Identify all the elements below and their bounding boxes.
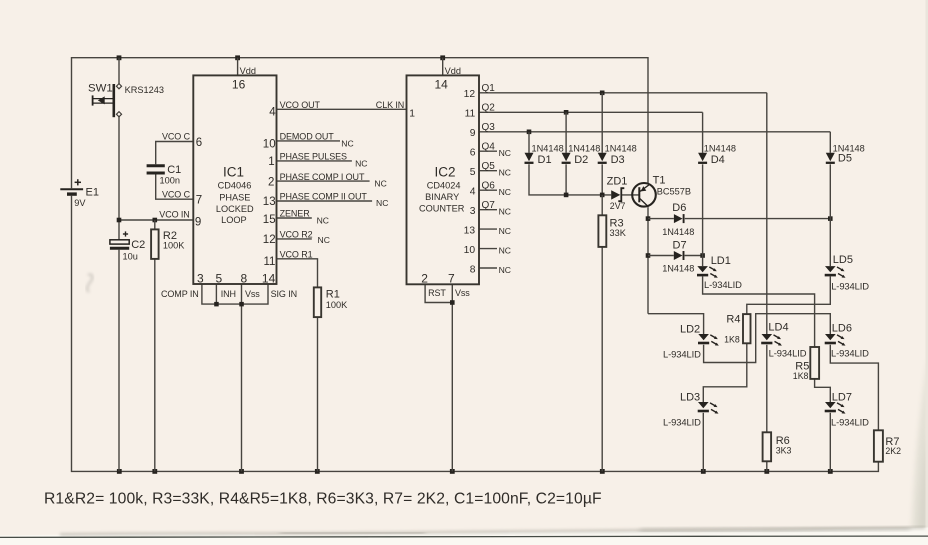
node ground LD7	[828, 469, 833, 474]
svg-text:NC: NC	[499, 168, 511, 178]
wire D6 row	[648, 218, 830, 220]
svg-text:DEMOD OUT: DEMOD OUT	[280, 132, 335, 142]
wire IC2 Q7 pin 3	[479, 209, 497, 211]
svg-text:LD5: LD5	[833, 254, 853, 266]
node D1 tap on Q3	[527, 130, 532, 135]
wire IC2 Q4 pin 6	[479, 150, 497, 152]
svg-text:100n: 100n	[160, 176, 180, 186]
svg-text:IC2: IC2	[434, 164, 455, 179]
svg-text:1N4148: 1N4148	[662, 227, 694, 237]
wire IC1 Vdd pin 16	[237, 58, 239, 76]
svg-text:Q5: Q5	[482, 161, 496, 172]
wire IC1 pin 6 to C1	[156, 142, 194, 165]
svg-text:SIG IN: SIG IN	[271, 289, 297, 299]
svg-text:1: 1	[409, 109, 415, 120]
wire R1 to ground	[317, 317, 319, 471]
svg-text:KRS1243: KRS1243	[125, 85, 164, 95]
op-amp U2 IC2 CD4024 binary counter box	[407, 75, 480, 284]
LED LD5 L-934LID	[825, 254, 870, 291]
node ground IC2 Vss	[450, 469, 455, 474]
svg-text:NC: NC	[376, 198, 388, 208]
svg-text:VCO R1: VCO R1	[280, 250, 313, 260]
svg-text:NC: NC	[317, 216, 329, 226]
svg-text:T1: T1	[653, 175, 666, 187]
node IC1 pin8 bus	[239, 302, 244, 307]
node ground R2	[152, 469, 157, 474]
svg-text:E1: E1	[86, 187, 99, 199]
wire IC1 pin 15 ZENER	[277, 217, 312, 219]
svg-text:5: 5	[216, 272, 223, 286]
svg-text:11: 11	[264, 256, 276, 268]
svg-text:L-934LID: L-934LID	[769, 348, 807, 359]
resistor R4 1K8	[724, 313, 750, 344]
svg-text:9V: 9V	[74, 198, 86, 208]
wire R3 branch	[601, 195, 603, 472]
node D2 on bus	[564, 193, 569, 198]
svg-text:D4: D4	[711, 154, 725, 166]
wire D2 branch	[565, 112, 567, 195]
LED LD4 L-934LID	[761, 321, 806, 358]
svg-text:LD3: LD3	[680, 391, 700, 403]
node IC2 Vdd junction	[440, 55, 445, 60]
IC1 pin labels	[159, 66, 388, 299]
svg-text:L-934LID: L-934LID	[663, 349, 701, 360]
svg-text:Q6: Q6	[482, 181, 496, 192]
resistor R3 33K	[598, 215, 626, 247]
wire SW1 to VCO IN node	[118, 58, 120, 220]
wire IC1 pin 13 PHASE COMP II OUT	[277, 200, 373, 202]
svg-text:D2: D2	[574, 154, 588, 166]
svg-text:1N4148: 1N4148	[662, 264, 694, 274]
wire ZD1 to T1 base	[622, 194, 639, 196]
svg-text:L-934LID: L-934LID	[831, 417, 869, 428]
svg-text:2V7: 2V7	[610, 201, 626, 211]
wire R5 to LD7	[815, 379, 831, 402]
wire R4 to LD3	[703, 343, 747, 402]
wire IC2 Q5 pin 5	[479, 170, 497, 172]
svg-text:Q3: Q3	[482, 122, 496, 133]
wire IC2 pin 7 Vss to ground	[451, 284, 453, 471]
svg-text:14: 14	[262, 272, 276, 286]
zener diode ZD1 2V7	[607, 175, 628, 211]
wire IC2 pin 10	[479, 248, 497, 250]
svg-text:D5: D5	[838, 153, 852, 165]
svg-text:13: 13	[464, 225, 476, 236]
node VCO IN at R2	[153, 218, 158, 223]
svg-text:100K: 100K	[163, 240, 185, 250]
svg-text:2: 2	[421, 272, 428, 286]
svg-text:12: 12	[464, 89, 476, 100]
svg-text:D1: D1	[538, 154, 552, 166]
svg-text:L-934LID: L-934LID	[663, 417, 701, 428]
node ground R6	[764, 469, 769, 474]
diode D7 1N4148	[662, 239, 694, 273]
svg-text:INH: INH	[221, 289, 236, 299]
resistor R5 1K8	[793, 347, 819, 381]
svg-text:13: 13	[263, 196, 276, 208]
svg-text:4: 4	[269, 106, 276, 118]
svg-text:COMP IN: COMP IN	[161, 289, 199, 299]
svg-text:8: 8	[241, 272, 248, 286]
LED LD2 L-934LID	[663, 323, 719, 359]
svg-text:SW1: SW1	[88, 83, 113, 95]
wire IC2 pin 13	[479, 228, 497, 230]
svg-text:2: 2	[268, 176, 274, 188]
svg-text:Q2: Q2	[482, 103, 496, 114]
svg-text:1N4148: 1N4148	[532, 143, 564, 153]
resistor R6 3K3	[763, 432, 792, 461]
svg-text:10: 10	[464, 245, 476, 256]
svg-text:9: 9	[470, 128, 476, 139]
wire R2 branch	[154, 220, 156, 471]
caption component values	[44, 491, 602, 508]
svg-text:3K3: 3K3	[776, 446, 792, 456]
svg-text:VCO IN: VCO IN	[159, 210, 189, 220]
wire LD6 to R7	[830, 345, 878, 431]
svg-text:BINARY: BINARY	[425, 192, 459, 202]
svg-text:Vdd: Vdd	[445, 66, 461, 76]
svg-text:NC: NC	[499, 207, 511, 217]
svg-text:L-934LID: L-934LID	[831, 281, 869, 292]
svg-text:VCO R2: VCO R2	[280, 230, 313, 240]
wire T1 collector to LD2	[648, 314, 704, 334]
svg-text:9: 9	[195, 216, 201, 228]
svg-text:15: 15	[263, 214, 276, 226]
wire IC1 pin 5 INH	[215, 284, 217, 304]
node D2 tap on Q2	[564, 110, 569, 115]
LED LD7 L-934LID	[825, 391, 869, 427]
wire IC1 pin 3 COMP IN bracket	[202, 284, 268, 304]
svg-text:D3: D3	[611, 154, 625, 166]
wire IC1 pin 4 VCO OUT to IC2 CLK IN pin 1	[277, 108, 407, 110]
svg-text:7: 7	[196, 195, 202, 207]
svg-text:COUNTER: COUNTER	[419, 203, 465, 213]
svg-text:LD1: LD1	[711, 255, 731, 267]
wire Q3 column through D5 to LD5	[829, 132, 831, 266]
diode D1 1N4148	[525, 143, 564, 166]
wire IC2 pin 8	[479, 267, 497, 269]
svg-text:LD2: LD2	[680, 323, 700, 335]
svg-text:VCO C: VCO C	[162, 131, 191, 141]
svg-text:4: 4	[470, 187, 476, 198]
wire VCO IN to IC1 pin 9	[119, 219, 193, 221]
node ground R1	[315, 469, 320, 474]
svg-text:1K8: 1K8	[793, 371, 809, 381]
wire Q1 column to LD4	[766, 93, 768, 334]
svg-text:CLK IN: CLK IN	[376, 100, 404, 110]
svg-text:LOOP: LOOP	[221, 215, 247, 225]
wire R6 to ground	[766, 461, 768, 471]
svg-text:1K8: 1K8	[724, 334, 740, 344]
svg-text:LD4: LD4	[768, 321, 788, 333]
svg-text:CD4024: CD4024	[427, 181, 461, 191]
wire C1 to IC1 pin 7	[156, 174, 194, 199]
svg-text:16: 16	[232, 77, 246, 91]
node T1 to D6	[646, 216, 651, 221]
svg-text:8: 8	[470, 264, 476, 275]
wire IC1 pin 10 DEMOD OUT	[277, 140, 341, 142]
svg-text:ZD1: ZD1	[607, 175, 628, 187]
svg-text:PHASE COMP I OUT: PHASE COMP I OUT	[280, 172, 365, 182]
wire LD2 to LD6	[704, 314, 831, 363]
wire D7 row	[648, 255, 703, 257]
IC2 pin labels	[376, 66, 511, 298]
battery E1 9V	[60, 179, 99, 208]
node IC1 pin5 bus	[214, 302, 219, 307]
capacitor C2 10u electrolytic	[110, 231, 145, 261]
svg-text:33K: 33K	[610, 228, 627, 238]
svg-text:NC: NC	[499, 226, 511, 236]
svg-text:NC: NC	[499, 246, 511, 256]
node VCO IN at C2	[117, 218, 122, 223]
svg-text:LD6: LD6	[832, 323, 852, 335]
node D6 at D5 column	[828, 216, 833, 221]
svg-text:R1&R2= 100k, R3=33K, R4&R5=1K8: R1&R2= 100k, R3=33K, R4&R5=1K8, R6=3K3, …	[44, 491, 602, 508]
svg-text:VCO OUT: VCO OUT	[280, 100, 321, 110]
wire IC2 Q6 pin 4	[479, 189, 497, 191]
LED LD1 L-934LID	[697, 255, 742, 290]
svg-text:Q7: Q7	[482, 200, 496, 211]
node SW1 top junction	[117, 55, 122, 60]
svg-text:R4: R4	[726, 313, 740, 325]
transistor T1 BC557B	[632, 175, 691, 207]
wire LD1 to R5	[703, 277, 815, 348]
wire D1 branch	[529, 132, 566, 195]
wire IC1 pin 2 PHASE COMP I OUT	[277, 180, 370, 182]
svg-text:C1: C1	[167, 164, 181, 176]
wire LD7 to ground	[829, 413, 831, 472]
svg-text:PHASE PULSES: PHASE PULSES	[280, 152, 347, 162]
svg-text:PHASE: PHASE	[219, 193, 250, 203]
svg-text:NC: NC	[499, 148, 511, 158]
svg-text:L-934LID: L-934LID	[704, 279, 742, 290]
svg-text:5: 5	[470, 167, 476, 178]
wire IC2 pin 2 RST bracket	[425, 284, 452, 302]
svg-text:NC: NC	[318, 235, 330, 245]
svg-text:NC: NC	[355, 159, 367, 169]
svg-text:1: 1	[268, 156, 274, 168]
op-amp U1 IC1 CD4046 phase locked loop box	[193, 75, 276, 284]
svg-text:LOCKED: LOCKED	[216, 204, 254, 214]
node IC2 RST junction	[450, 300, 455, 305]
svg-text:LD7: LD7	[832, 391, 852, 403]
diode D4 1N4148	[698, 143, 736, 166]
svg-text:6: 6	[196, 137, 202, 149]
svg-text:11: 11	[465, 109, 476, 120]
svg-text:C2: C2	[131, 239, 145, 251]
wire Vdd top rail	[72, 58, 649, 189]
wire IC2 Q1 pin 12 to LD4 column	[479, 92, 767, 94]
svg-text:3: 3	[470, 206, 476, 217]
svg-text:VCO C: VCO C	[162, 190, 191, 200]
svg-text:12: 12	[263, 234, 276, 246]
svg-text:100K: 100K	[326, 300, 348, 310]
switch SW1 KRS1243	[88, 83, 164, 118]
svg-text:1N4148: 1N4148	[704, 143, 736, 153]
wire IC2 Vdd pin 14	[442, 58, 444, 76]
svg-text:7: 7	[448, 272, 455, 286]
svg-text:6: 6	[470, 148, 476, 159]
svg-text:Vdd: Vdd	[240, 66, 256, 76]
svg-text:1N4148: 1N4148	[568, 143, 600, 153]
resistor R7 2K2	[874, 430, 901, 461]
node IC1 Vdd junction	[235, 55, 240, 60]
svg-text:Vss: Vss	[455, 288, 470, 298]
node T1 to D7	[646, 253, 651, 258]
node D7 at LD1 column	[700, 253, 705, 258]
svg-text:Q4: Q4	[482, 142, 496, 153]
svg-text:L-934LID: L-934LID	[831, 348, 869, 359]
wire LD5 to R4	[747, 277, 831, 315]
wire IC2 Q3 pin 9 to D5 column	[479, 131, 830, 133]
wire LD3 to ground	[702, 413, 704, 472]
svg-text:BC557B: BC557B	[657, 187, 691, 197]
wire T1 collector down	[647, 207, 649, 314]
wire IC2 Q2 pin 11 to D4 column	[479, 111, 703, 113]
resistor R1 100K	[314, 287, 348, 317]
diode D6 1N4148	[662, 202, 694, 237]
svg-text:2K2: 2K2	[885, 446, 901, 456]
svg-text:ZENER: ZENER	[280, 209, 311, 219]
node D3 tap on Q1	[600, 91, 605, 96]
wire ground rail	[72, 196, 879, 472]
node ground LD3	[701, 469, 706, 474]
diode D2 1N4148	[562, 143, 601, 166]
svg-text:PHASE COMP II OUT: PHASE COMP II OUT	[280, 192, 368, 202]
svg-text:10u: 10u	[123, 252, 138, 262]
svg-text:R1: R1	[326, 288, 340, 300]
svg-text:D6: D6	[672, 202, 686, 214]
svg-text:IC1: IC1	[223, 165, 244, 180]
svg-text:NC: NC	[341, 139, 353, 149]
node ground C2	[117, 469, 122, 474]
node R3 on bus	[600, 193, 605, 198]
wire IC1 pin 1 PHASE PULSES	[277, 160, 352, 162]
svg-text:NC: NC	[499, 187, 511, 197]
svg-text:10: 10	[263, 139, 276, 151]
svg-text:CD4046: CD4046	[218, 181, 252, 191]
LED LD6 L-934LID	[825, 323, 869, 359]
wire C2 branch	[118, 220, 120, 471]
wire diode bus to ZD1	[566, 194, 611, 196]
wire IC1 pin 8 Vss to ground	[241, 284, 243, 471]
wire IC1 pin 12 VCO R2	[277, 238, 312, 240]
wire IC1 pin 11 VCO R1 to R1	[277, 259, 318, 288]
svg-text:RST: RST	[428, 288, 446, 298]
LED LD3 L-934LID	[663, 391, 719, 427]
svg-text:Vss: Vss	[245, 289, 260, 299]
svg-text:1N4148: 1N4148	[605, 143, 637, 153]
svg-text:D7: D7	[673, 239, 687, 251]
diode D3 1N4148	[598, 143, 637, 166]
svg-text:NC: NC	[499, 265, 511, 275]
svg-text:Q1: Q1	[482, 83, 496, 94]
svg-text:3: 3	[197, 272, 204, 286]
resistor R2 100K	[151, 229, 185, 259]
capacitor C1 100n	[147, 164, 182, 186]
diode D5 1N4148	[826, 143, 865, 164]
wire LD4 to R6	[766, 345, 768, 433]
node ground IC1 Vss	[239, 469, 244, 474]
wire Q2 column through D4 to LD1	[702, 112, 704, 266]
wire D3 branch	[601, 93, 603, 195]
svg-text:NC: NC	[374, 179, 386, 189]
node ground R3	[600, 469, 605, 474]
svg-text:14: 14	[435, 77, 449, 91]
